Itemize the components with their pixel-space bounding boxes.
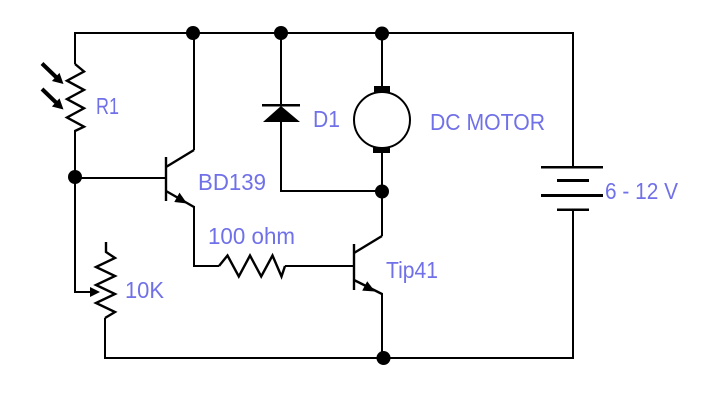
svg-text:R1: R1 bbox=[96, 93, 119, 119]
svg-text:Tip41: Tip41 bbox=[386, 257, 438, 283]
svg-text:BD139: BD139 bbox=[198, 169, 266, 195]
svg-text:D1: D1 bbox=[313, 106, 340, 132]
svg-text:100 ohm: 100 ohm bbox=[208, 223, 295, 249]
svg-text:DC MOTOR: DC MOTOR bbox=[430, 109, 545, 135]
svg-text:10K: 10K bbox=[125, 277, 165, 303]
svg-text:6 - 12 V: 6 - 12 V bbox=[605, 178, 679, 204]
